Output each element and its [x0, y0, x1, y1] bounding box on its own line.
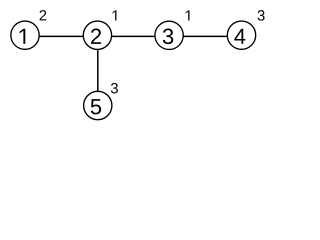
node 3 weight label 1	[186, 10, 190, 20]
node 3 digit 3	[163, 29, 173, 45]
node 4 digit 4	[234, 29, 245, 44]
node 1 digit 1	[20, 29, 26, 44]
wire edge 3-4	[169, 35, 241, 37]
node 5 circle	[84, 91, 112, 119]
graph diagram: 5-node weighted graph	[0, 0, 276, 129]
node 2 weight label 1	[113, 10, 117, 20]
node 1 weight label 2	[40, 10, 47, 20]
node 5 weight label 3	[111, 83, 118, 93]
node 2 circle	[83, 21, 111, 49]
node 1 circle	[11, 21, 39, 49]
node 2 digit 2	[91, 29, 101, 44]
wire edge 2-5	[97, 36, 99, 106]
node 5 digit 5	[91, 99, 101, 114]
node 4 circle	[227, 21, 255, 49]
node 4 weight label 3	[258, 10, 265, 20]
node 3 circle	[155, 21, 183, 49]
wire edge 1-2	[25, 35, 97, 37]
wire edge 2-3	[97, 35, 169, 37]
